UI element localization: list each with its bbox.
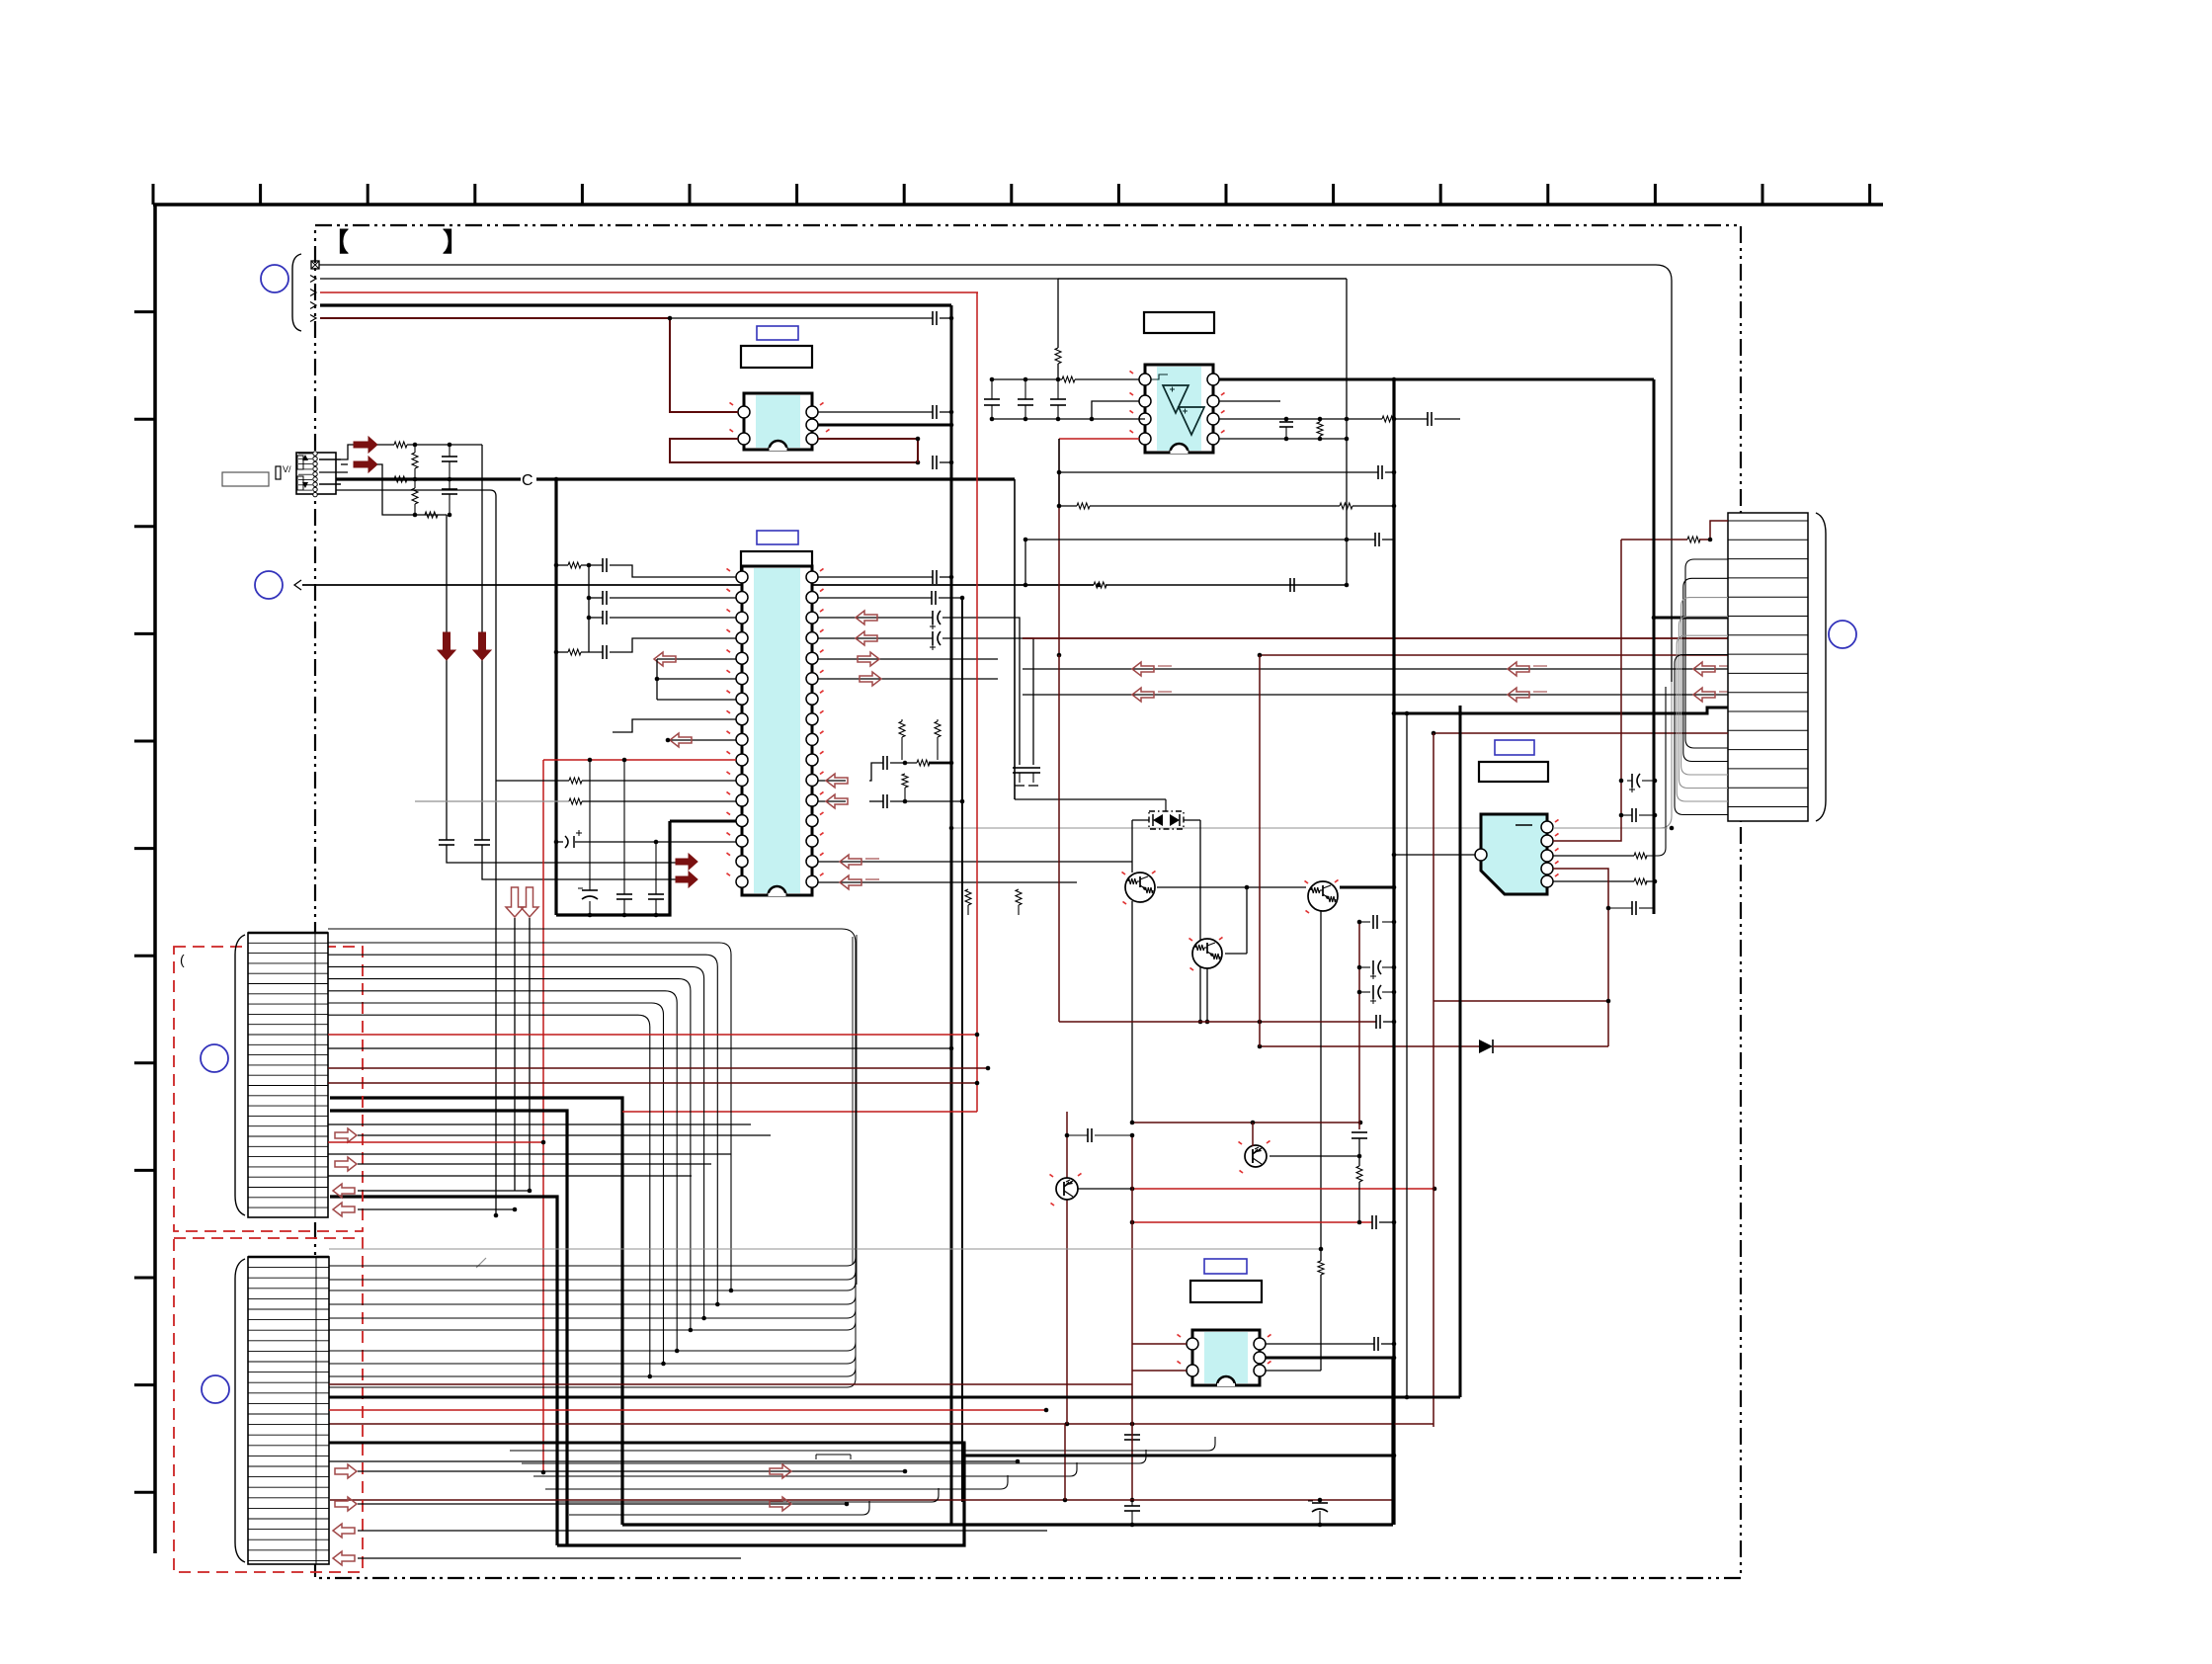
IC2 label box — [741, 551, 812, 573]
IC2 pin L5 — [736, 652, 748, 664]
bank1 arrow exit 1178 — [335, 1157, 357, 1171]
IC3 pin5 row — [1219, 438, 1347, 440]
bank2 pin row 17 — [248, 1434, 329, 1436]
IC5 label box — [1190, 1281, 1262, 1302]
IC1 wire left top (dark red) — [670, 318, 738, 412]
Q3 — [1308, 881, 1338, 911]
IC2 pin R6 — [806, 673, 818, 685]
IC2 pin L12 — [736, 794, 748, 806]
IC2 r2 right — [818, 597, 932, 599]
IC2 pin R2 — [806, 592, 818, 604]
IC2 row2 left — [588, 565, 590, 652]
bank1 body — [248, 933, 328, 1217]
IC2 pin L16 — [736, 875, 748, 887]
border ruler left — [153, 205, 157, 1553]
VA solid arrow 2 — [341, 463, 348, 465]
bank1 pin row 16 — [248, 1095, 328, 1097]
thin black from line5 junction to cap — [670, 317, 933, 319]
bank1 arrow exit 1224 — [333, 1203, 355, 1216]
right connector pin row 10 — [1728, 692, 1808, 694]
IC3 pin2 left jog — [1092, 401, 1139, 419]
IC1 right wires — [818, 411, 933, 413]
blue circle 2 + entry — [255, 571, 283, 599]
thin vertical x1424 — [1406, 713, 1408, 1397]
transistor Q5 — [1056, 1178, 1078, 1200]
blue circle right — [1829, 621, 1856, 648]
svg-text:C: C — [522, 472, 533, 489]
vertical from C bus down to diode row — [1014, 479, 1016, 799]
IC2 row10 red — [543, 759, 736, 761]
IC2 row13 thick — [670, 820, 736, 823]
IC2 r4 right — [818, 637, 933, 639]
IC2 row1 left RC — [556, 564, 568, 566]
blue circle bank1 — [201, 1044, 228, 1072]
brace left entry — [292, 254, 301, 331]
IC2 pin R8 — [806, 713, 818, 725]
bank2 pin row 4 — [248, 1297, 329, 1299]
right connector pin row 15 — [1728, 787, 1808, 789]
bank2 pin row 25 — [248, 1518, 329, 1520]
bank1 exit 1190 — [328, 1175, 692, 1177]
tick left 1 — [134, 310, 155, 313]
dark red vertical x1376 — [1358, 922, 1360, 1129]
bank1 pin row 22 — [248, 1156, 328, 1158]
right connector pin row 14 — [1728, 768, 1808, 770]
IC2 pin R7 — [806, 693, 818, 705]
bottom staircase wires — [510, 1437, 1215, 1451]
IC2 pin L15 — [736, 856, 748, 868]
bank2 pin row 19 — [248, 1455, 329, 1456]
bank1 pin row 23 — [248, 1166, 328, 1168]
C bus line — [336, 477, 521, 480]
IC1 body — [744, 393, 812, 450]
bank2 exit wire 0 — [329, 1240, 856, 1280]
IC2 row3 left — [602, 611, 604, 624]
bank2 pin row 1 — [248, 1267, 329, 1269]
svg-text:V/: V/ — [283, 464, 291, 474]
bank1 red exit 1156 — [328, 1141, 543, 1143]
bank1 arrow exit 1149 — [335, 1128, 357, 1142]
IC2 pin L13 — [736, 815, 748, 827]
IC2 pin R3 — [806, 612, 818, 624]
bank1 pin row 11 — [248, 1043, 328, 1045]
bank2 brace — [235, 1259, 245, 1562]
wire 521 to down-bundle — [425, 512, 438, 518]
tick top 13 — [1546, 184, 1549, 205]
bank2 pin row 13 — [248, 1392, 329, 1394]
bank1 pin row 13 — [248, 1064, 328, 1066]
right connector pin row 13 — [1728, 749, 1808, 751]
cap row y1149 — [1065, 1133, 1070, 1138]
double hollow down arrows — [514, 918, 516, 1191]
resistors below r16 — [899, 721, 905, 737]
jack label box — [222, 472, 269, 486]
IC4 pin4 dark red net — [1553, 869, 1608, 1046]
dual diode box — [1149, 811, 1184, 829]
right connector pin row 5 — [1728, 596, 1808, 598]
IC5 blue label box — [1204, 1259, 1247, 1274]
bank2 pin row 21 — [248, 1476, 329, 1478]
right connector body — [1728, 513, 1808, 821]
bank1 pin row 26 — [248, 1197, 328, 1199]
black long row 677 — [1023, 668, 1728, 670]
IC2 pin L11 — [736, 775, 748, 787]
bank2 pin row 16 — [248, 1424, 329, 1426]
IC5 left wires dark red — [1132, 1343, 1187, 1345]
tick left 3 — [134, 525, 155, 528]
IC2 pin R5 — [806, 652, 818, 664]
jack connector body — [296, 453, 336, 494]
line from circle2 — [302, 584, 1094, 586]
red elbow into bus1125 — [622, 1111, 977, 1113]
IC2 body — [742, 566, 812, 895]
bank2 thick exit 1414 — [329, 1396, 1460, 1399]
bank2 arrow exit 1489 — [335, 1464, 357, 1478]
tick left 4 — [134, 632, 155, 635]
tick left 9 — [134, 1169, 155, 1172]
dual diode leads — [1132, 819, 1149, 821]
IC2 pin R16 — [806, 875, 818, 887]
bank1 pin row 9 — [248, 1024, 328, 1026]
bank1 pin row 20 — [248, 1135, 328, 1137]
thick riser x1410 — [1391, 1358, 1394, 1525]
jack switch stub — [276, 466, 281, 479]
IC4 pin left — [1475, 849, 1487, 861]
IC2 pin R13 — [806, 815, 818, 827]
bank2 arrow exit 1577 — [333, 1551, 355, 1565]
bank2 pin row 2 — [248, 1277, 329, 1279]
IC5 right wires — [1266, 1343, 1374, 1345]
right connector pin row 3 — [1728, 558, 1808, 560]
right connector pin row 1 — [1728, 520, 1808, 522]
small label frame above 1472 — [816, 1454, 851, 1456]
tick top 1 — [259, 184, 262, 205]
tick top 10 — [1225, 184, 1228, 205]
IC4 blue label box — [1495, 740, 1534, 755]
bank2 pin row 22 — [248, 1486, 329, 1488]
dark red vertical x1275 — [1259, 655, 1261, 1046]
Q3 vertical down to IC5 — [1320, 910, 1322, 1261]
IC3 left caps x1004 x1038 x1071 — [992, 378, 1059, 380]
Q1 chain vertical x1146 lower — [1131, 1135, 1133, 1500]
cap on 468 — [932, 456, 934, 469]
bank2 exit wire 5 — [329, 1311, 856, 1351]
IC2 r3 right: arrow+pol cap, down to cap — [818, 617, 933, 619]
dark red jog y1013 — [1434, 1000, 1608, 1002]
bank1 plain exits — [328, 1123, 751, 1125]
thick L to ground bus — [556, 821, 670, 915]
bank1 pin row 2 — [248, 953, 328, 955]
bank2 pin row 15 — [248, 1413, 329, 1415]
thick wire row6 — [1654, 379, 1728, 618]
bank1 pin row 7 — [248, 1003, 328, 1005]
IC3 pin1 resistor — [1059, 378, 1062, 380]
IC5 body — [1192, 1330, 1260, 1385]
tick top 8 — [1010, 184, 1013, 205]
red dashed box 2 — [174, 1238, 363, 1572]
resistor R after arrow1 — [377, 444, 394, 446]
svg-text:【: 【 — [323, 227, 349, 257]
IC3 outer wire box — [1058, 278, 1347, 280]
bank1 pin row 15 — [248, 1085, 328, 1087]
tick top 9 — [1117, 184, 1120, 205]
Q2 connections — [1206, 968, 1208, 1022]
IC2 pin R14 — [806, 835, 818, 847]
right connector pin row 4 — [1728, 577, 1808, 579]
IC2 r5 right long — [818, 658, 998, 660]
IC2 r12 right chain — [818, 800, 846, 802]
VA solid arrow 1 — [354, 437, 377, 453]
thick vertical x564 from bank1 lower — [330, 1197, 557, 1545]
bank1 dark red exits — [328, 1067, 988, 1069]
solid arrow into pin16 — [676, 872, 697, 887]
IC1 pins — [738, 406, 750, 418]
dark red diode row y1059 — [1260, 1045, 1479, 1047]
entry line 4 (thick) — [310, 302, 316, 309]
bank2 exit wire 1 — [329, 1251, 856, 1290]
tick top 0 — [152, 184, 155, 205]
thick bus x1411 — [1392, 379, 1395, 1525]
svg-text:(: ( — [180, 952, 185, 967]
bank2 arrow exit 1522 — [335, 1497, 357, 1511]
right connector brace — [1816, 513, 1826, 821]
IC4 left wire to bus — [1394, 854, 1475, 856]
bank2 pin row 10 — [248, 1361, 329, 1363]
bank1 pin row 19 — [248, 1125, 328, 1127]
bank1 pin row 27 — [248, 1206, 328, 1208]
red vertical from IC3 down — [1058, 439, 1060, 655]
bank1 exit 1061 — [328, 1047, 951, 1049]
right connector pin row 12 — [1728, 729, 1808, 731]
IC2 r15 right long — [818, 861, 1132, 863]
bank2 red exit 1427 — [329, 1409, 1046, 1411]
right connector pin row 11 — [1728, 710, 1808, 712]
IC4 pin5 resistor row — [1553, 880, 1634, 882]
IC3 body — [1145, 365, 1213, 453]
IC1 blue label box — [757, 326, 798, 340]
right connector pin row 16 — [1728, 806, 1808, 808]
caps column 1376-1411 — [1359, 921, 1370, 923]
IC2 row11 left — [496, 780, 569, 782]
caps between buses — [1131, 1500, 1133, 1506]
IC3 pin7 row — [1219, 400, 1280, 402]
bank2 pin row 14 — [248, 1402, 329, 1404]
bank2 pin row 27 — [248, 1539, 329, 1540]
Q4 right row — [1270, 1155, 1359, 1157]
tick left 10 — [134, 1277, 155, 1280]
bank1 arrow exit 1205 — [333, 1184, 355, 1198]
bank2 pin row 23 — [248, 1497, 329, 1499]
bottom thick bus y1543 — [622, 1523, 1393, 1526]
bank2 thick exit 1460 — [329, 1443, 1394, 1456]
bank2 pin row 9 — [248, 1350, 329, 1352]
bank2 pin row 5 — [248, 1308, 329, 1310]
IC1 label box — [741, 346, 812, 368]
bank1 nested L wires — [328, 943, 731, 1290]
cap/res between rows 424-444 — [1285, 419, 1287, 422]
Q4 — [1245, 1145, 1267, 1167]
connector loop wire 3 — [1679, 617, 1728, 789]
tick top 3 — [473, 184, 476, 205]
IC4 pin2 dark red up — [1553, 540, 1621, 841]
Q1 — [1125, 873, 1155, 902]
connector loop wire 1 — [1683, 578, 1728, 761]
IC2 pin L3 — [736, 612, 748, 624]
vertical resistors x980 x1031 — [965, 889, 971, 905]
IC3 pin4 red in — [1059, 438, 1139, 440]
bank1 pin row 25 — [248, 1187, 328, 1189]
vertical wire x452 — [446, 515, 448, 840]
black long row 703 — [1023, 694, 1728, 696]
dark red row12 — [1434, 732, 1728, 734]
bank1 pin row 8 — [248, 1013, 328, 1015]
IC2 pin R10 — [806, 754, 818, 766]
cap x1146 y1450 — [1131, 1424, 1133, 1435]
IC4 pins right — [1541, 821, 1553, 833]
bank2 pin row 3 — [248, 1288, 329, 1290]
wire above dual diode — [1015, 798, 1166, 800]
bank2 pin row 12 — [248, 1381, 329, 1383]
tick top 6 — [795, 184, 798, 205]
IC2 row8 left — [613, 719, 736, 732]
bank2 pin row 6 — [248, 1319, 329, 1321]
bank2 pin row 20 — [248, 1465, 329, 1467]
connector loop wire 2 — [1681, 598, 1728, 775]
dark red H y1034 — [1059, 1021, 1376, 1023]
bank1 pin row 5 — [248, 983, 328, 985]
bank1 pin row 6 — [248, 993, 328, 995]
IC1 wire left bottom (dark red) — [670, 439, 918, 462]
tick top 4 — [581, 184, 584, 205]
IC2 row12 left (gray) — [415, 800, 569, 802]
entry line 3 (red) — [310, 290, 316, 296]
entry line 1 (with box terminal) — [311, 261, 319, 269]
rows 478/512/546/591 — [1059, 471, 1378, 473]
bank2 pin row 11 — [248, 1372, 329, 1373]
red row y1203 — [1132, 1188, 1434, 1190]
thick vertical x963 — [950, 305, 953, 1525]
IC3 pins — [1139, 374, 1151, 385]
connector loop wire 5 — [1675, 655, 1728, 815]
cap columns to ground bus — [589, 760, 591, 890]
IC2 pin L6 — [736, 673, 748, 685]
IC2 pin L1 — [736, 571, 748, 583]
connector loop wire 4 — [1677, 635, 1728, 801]
bank1 pin row 3 — [248, 962, 328, 964]
right connector pin row 8 — [1728, 653, 1808, 655]
bundle Q verticals — [852, 937, 854, 1265]
tick left 5 — [134, 740, 155, 743]
IC3 label box — [1144, 312, 1214, 333]
IC2 pin L14 — [736, 835, 748, 847]
IC2 r6 right long — [818, 678, 998, 680]
bank2 pin row 24 — [248, 1507, 329, 1509]
Q1-Q3 base row — [1157, 886, 1306, 888]
bank2 exit wire 7 — [329, 1337, 856, 1376]
IC3 op-amp triangles — [1163, 385, 1188, 413]
bank1 pin row 12 — [248, 1054, 328, 1056]
svg-text:】: 】 — [443, 227, 468, 257]
IC2 pin R4 — [806, 632, 818, 644]
bank2 pin row 8 — [248, 1340, 329, 1342]
RC network verticals — [412, 453, 418, 468]
dark red row 646 — [1023, 637, 1728, 639]
tick top 5 — [689, 184, 692, 205]
IC2 blue label box — [757, 531, 798, 544]
tick top 7 — [903, 184, 906, 205]
IC4 body (chamfered) — [1481, 814, 1547, 894]
pol caps 1641-1675 — [1631, 774, 1633, 788]
IC2 r11 right chain — [818, 780, 846, 782]
tick top 2 — [367, 184, 369, 205]
bank1 outer loop wire to bank2 — [328, 929, 856, 1263]
entry line 2 — [310, 276, 316, 283]
bank1 pin row 21 — [248, 1145, 328, 1147]
IC2 pin R12 — [806, 794, 818, 806]
blue circle bank2 — [202, 1375, 229, 1403]
IC2 row7 left — [657, 699, 736, 701]
bank1 pin row 4 — [248, 972, 328, 974]
bank2 exit wire 3 — [329, 1279, 856, 1318]
IC2 pin L9 — [736, 733, 748, 745]
IC2 row6 left — [657, 678, 736, 680]
right connector pin row 6 — [1728, 616, 1808, 618]
bank2 exit wire 6 — [329, 1324, 856, 1364]
border ruler top — [153, 203, 1883, 207]
IC4 pin1 gray row — [1553, 827, 1668, 829]
bottom thick elbow — [557, 1443, 964, 1545]
bank2 exit 1479 — [329, 1460, 1018, 1462]
IC4 label box — [1479, 762, 1548, 782]
vertical x974 — [961, 598, 963, 1502]
bank1 pin row 14 — [248, 1074, 328, 1076]
bank1 pin row 10 — [248, 1034, 328, 1036]
red row y1237 — [1132, 1221, 1372, 1223]
tick left 11 — [134, 1383, 155, 1386]
bank2 pin row 29 — [248, 1559, 329, 1561]
bank1 red exit 1047 — [328, 1034, 977, 1036]
IC3 pin8 thick to right — [1219, 378, 1654, 381]
bottom dark red bus y1518 — [330, 1499, 1394, 1501]
bank2 exit wire 4 — [329, 1290, 856, 1330]
IC2 pin L10 — [736, 754, 748, 766]
solid arrow into pin15 — [676, 854, 697, 870]
block boundary dash-dot box — [315, 225, 1741, 1578]
bank2 gray exits — [329, 1248, 1321, 1250]
IC2 pin L8 — [736, 713, 748, 725]
thick wire row11 — [1394, 707, 1728, 713]
tick left 12 — [134, 1491, 155, 1494]
right connector pin row 7 — [1728, 634, 1808, 636]
vertical wire x502 — [336, 490, 496, 781]
bank2 exit wire 2 — [329, 1265, 856, 1304]
thick vertical 1674 lower — [1653, 618, 1656, 914]
dark red row 663 corner — [1260, 654, 1728, 656]
IC2 pin L2 — [736, 592, 748, 604]
bank2 pin row 18 — [248, 1445, 329, 1447]
tick left 7 — [134, 955, 155, 957]
bank1 pin row 17 — [248, 1105, 328, 1107]
bank1 pin row 1 — [248, 942, 328, 944]
bank1 pin row 24 — [248, 1176, 328, 1178]
bank2 dark red exit 1401 — [329, 1383, 1132, 1385]
Q1 vertical down (dark) — [1131, 901, 1133, 1122]
IC5 pins — [1187, 1338, 1198, 1350]
IC4 pin3 resistor row — [1553, 855, 1634, 857]
entry line 5 (dark red) — [310, 315, 316, 322]
dark red drop x1078 — [1064, 1424, 1066, 1500]
dark red feed to row1 — [1621, 539, 1687, 541]
